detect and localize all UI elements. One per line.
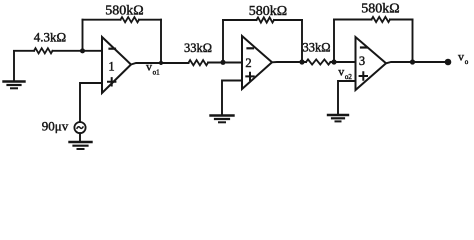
wire F1 top right segment — [139, 19, 161, 21]
wire F1 right leg down to output — [160, 20, 162, 63]
wire R1 to op-amp U1 inverting input — [53, 50, 103, 52]
node B junction dot feedback1/output — [159, 61, 163, 65]
wire F3 top left segment — [334, 19, 372, 21]
ground G3 under U2 — [211, 116, 234, 123]
svg-text:o1: o1 — [153, 68, 161, 76]
wire U1 plus input stub — [80, 83, 102, 122]
svg-text:4.3kΩ: 4.3kΩ — [34, 30, 66, 45]
wire R3 to op-amp U2 input — [208, 62, 242, 64]
wire U3 plus input stub — [338, 81, 356, 115]
op-amp U3 — [356, 37, 387, 90]
svg-text:33kΩ: 33kΩ — [302, 41, 330, 55]
svg-text:580kΩ: 580kΩ — [105, 4, 143, 19]
svg-text:1: 1 — [108, 60, 114, 74]
svg-text:o2: o2 — [345, 73, 353, 81]
op-amp U1 — [102, 37, 131, 93]
node E junction dot stage3 input — [331, 59, 336, 64]
U1 minus sign — [110, 48, 116, 50]
wire U2 output — [272, 61, 306, 63]
resistor R2 580k stage1 feedback — [121, 17, 140, 22]
node F junction dot feedback3/output — [410, 59, 415, 64]
wire feedback F2 left leg up — [222, 20, 224, 62]
node D junction dot feedback2/output — [299, 59, 304, 64]
svg-text:3: 3 — [359, 54, 365, 68]
wire feedback F3 left leg up — [333, 20, 335, 63]
resistor R6 580k stage3 feedback — [372, 17, 391, 22]
ground G2 under source — [70, 142, 92, 149]
svg-text:v: v — [338, 65, 344, 79]
resistor R4 580k stage2 feedback — [257, 17, 275, 22]
U3 minus sign — [361, 46, 367, 48]
source V1 90uV circle — [74, 122, 85, 133]
V1 sine symbol — [77, 127, 83, 129]
label v_o2 — [338, 65, 352, 81]
wire F3 top right segment — [390, 19, 413, 21]
svg-text:o: o — [465, 58, 469, 66]
svg-text:2: 2 — [245, 56, 251, 70]
wire feedback F1 left leg up — [82, 20, 84, 51]
wire V1 to ground — [79, 133, 81, 142]
wire F3 right leg down to output — [412, 20, 414, 63]
U2 plus sign — [246, 73, 253, 80]
wire F1 top left segment — [83, 19, 121, 21]
svg-text:580kΩ: 580kΩ — [249, 4, 287, 19]
label v_o — [458, 50, 469, 67]
wire U2 plus input stub — [222, 81, 242, 116]
wire F2 top left segment — [223, 19, 257, 21]
op-amp U2 — [242, 36, 272, 89]
U3 plus sign — [360, 72, 367, 79]
wire R5 to op-amp U3 input — [331, 61, 356, 63]
wire U1 output — [131, 63, 189, 65]
wire F2 top right segment — [274, 19, 302, 21]
svg-text:580kΩ: 580kΩ — [361, 2, 399, 17]
ground G4 under U3 — [328, 115, 348, 121]
resistor R1 4.3k zigzag — [34, 48, 53, 53]
output terminal dot — [445, 59, 452, 66]
label v_o1 — [146, 60, 160, 77]
node C junction dot stage2 input — [220, 60, 225, 65]
resistor R3 33k — [189, 60, 209, 65]
U2 minus sign — [248, 47, 254, 49]
U1 plus sign — [108, 78, 115, 85]
wire F2 right leg down to output — [301, 20, 303, 62]
wire G1 to R1 — [14, 50, 34, 52]
svg-text:33kΩ: 33kΩ — [184, 41, 212, 55]
ground G1 top-left — [4, 51, 25, 88]
svg-text:v: v — [458, 50, 464, 64]
node A junction dot stage1 input — [80, 48, 85, 53]
svg-text:v: v — [146, 60, 152, 74]
svg-text:90μv: 90μv — [42, 119, 69, 134]
wire U3 output — [386, 62, 448, 63]
resistor R5 33k — [306, 59, 331, 64]
